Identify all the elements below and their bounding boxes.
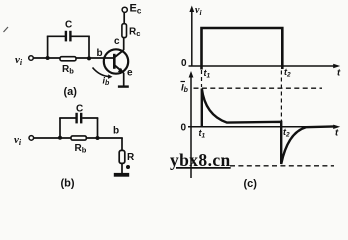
transistor Q1 body circle (104, 49, 128, 73)
svg-text:C: C (65, 20, 72, 31)
resistor Rc box (122, 24, 127, 38)
wire input to Rb (circuit b) (34, 137, 71, 139)
wire up left to cap rail (circuit a) (47, 36, 49, 58)
svg-text:0: 0 (181, 58, 187, 69)
svg-text:Rb: Rb (75, 143, 87, 155)
dashed level +Ib (194, 87, 323, 89)
wire top rail right (circuit b) (82, 117, 98, 119)
wire top rail right (circuit a) (72, 35, 90, 37)
dashed vertical t2 (280, 71, 282, 123)
svg-text:C: C (76, 104, 83, 115)
svg-text:(a): (a) (64, 86, 78, 98)
ground (circuit a) (118, 85, 129, 87)
wire up left to cap rail (circuit b) (59, 118, 61, 138)
waveform ib vertical axis (190, 75, 192, 179)
input terminal circle (circuit a) (29, 56, 34, 61)
wire top rail left (circuit a) (47, 35, 65, 37)
wire collector up to Rc (123, 38, 125, 50)
stray dot near R (126, 165, 130, 169)
svg-text:Rc: Rc (129, 27, 140, 39)
stray mark top-left (4, 27, 9, 32)
resistor R box (circuit b) (119, 150, 125, 163)
junction dot left (circuit b) (58, 136, 62, 140)
wire corner down to R (circuit b) (121, 138, 123, 150)
waveform ib curve (202, 89, 335, 165)
svg-text:b: b (113, 126, 119, 137)
wire input to Rb (circuit a) (33, 57, 60, 59)
wire Rc to Ec terminal (123, 12, 125, 23)
svg-text:e: e (127, 68, 133, 79)
dashed vertical t1 (201, 70, 203, 87)
junction dot right (circuit b) (96, 136, 100, 140)
waveform Ui vertical axis (191, 9, 193, 67)
resistor Rb box (circuit b) (71, 136, 86, 140)
wire down right cap leg (circuit b) (97, 118, 99, 138)
svg-text:c: c (114, 36, 120, 47)
wire top rail left (circuit b) (59, 117, 76, 119)
junction dot right (circuit a) (87, 56, 91, 60)
waveform ib time axis (188, 126, 338, 128)
waveform Ui square pulse (202, 28, 283, 70)
transistor Q1 collector stroke (114, 50, 123, 58)
svg-text:(c): (c) (244, 178, 258, 190)
input terminal circle (circuit b) (29, 136, 34, 141)
svg-text:b: b (97, 48, 103, 59)
base current ib arrow arc (93, 68, 111, 77)
junction dot left (circuit a) (46, 56, 50, 60)
wire emitter down to ground (123, 73, 125, 86)
transistor Q1 emitter arrowhead (118, 68, 124, 73)
dashed level -Ib (230, 165, 334, 167)
svg-text:R: R (127, 152, 135, 163)
wire R to ground (circuit b) (121, 163, 123, 173)
svg-text:Rb: Rb (62, 64, 74, 76)
transistor Q1 base bar (113, 54, 116, 69)
capacitor C plates (circuit b) (75, 113, 77, 124)
capacitor C plates (circuit a) (65, 31, 67, 42)
wire Rb to base (circuit a) (76, 57, 114, 59)
wire Rb to corner (circuit b) (86, 137, 123, 139)
resistor Rb box (circuit a) (60, 57, 76, 61)
wire down right cap leg (circuit a) (88, 36, 90, 58)
waveform Ui time axis (189, 65, 338, 67)
ground (circuit b) (114, 173, 129, 177)
svg-text:0: 0 (181, 123, 187, 134)
svg-text:ybx8.cn: ybx8.cn (170, 150, 231, 170)
svg-text:(b): (b) (61, 178, 75, 190)
power terminal Ec circle (122, 7, 127, 12)
transistor Q1 emitter stroke (114, 65, 123, 73)
